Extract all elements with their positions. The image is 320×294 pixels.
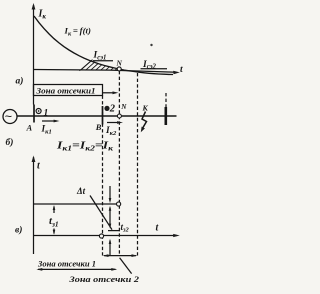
short dashed line above right electrode (x=166) <box>165 93 167 107</box>
wire: main circuit line <box>17 115 177 117</box>
svg-text:tз1: tз1 <box>49 215 59 228</box>
underline of label Ic32 <box>141 68 168 70</box>
box Zona otsechki 1 (middle band) <box>34 85 103 96</box>
svg-text:t: t <box>37 161 41 172</box>
svg-text:Δt: Δt <box>76 186 86 196</box>
x-axis of plot v <box>34 235 177 237</box>
svg-text:К: К <box>142 104 149 113</box>
node: y-axis of plot a (Ik axis) <box>33 5 35 105</box>
y-axis of plot v (t axis vertical) <box>33 157 35 254</box>
svg-text:Iк = f(t): Iк = f(t) <box>64 26 91 38</box>
leader line to zone 2 label <box>120 258 132 274</box>
level line t_e2 <box>108 230 120 232</box>
svg-text:~: ~ <box>5 109 12 123</box>
svg-text:в): в) <box>15 225 22 236</box>
svg-text:Зона отсечки1: Зона отсечки1 <box>35 86 95 95</box>
hatched triangle under curve left of N <box>80 60 117 71</box>
node N circle on circuit line <box>117 114 121 118</box>
lightning breakdown symbol at K <box>142 112 147 129</box>
double arrow zone 1 extent <box>38 268 116 270</box>
svg-text:Зона отсечки 1: Зона отсечки 1 <box>37 259 96 268</box>
double arrow between t_e1 and t_e2 levels <box>109 208 111 227</box>
node: t-axis of plot a <box>34 70 177 73</box>
svg-text:t: t <box>156 223 160 234</box>
svg-text:В: В <box>95 122 102 132</box>
svg-text:N: N <box>120 103 127 111</box>
node: y-axis arrowhead plot a <box>32 3 36 10</box>
marker filled dot 2 <box>104 106 109 111</box>
arrow Ik2 current <box>107 122 120 124</box>
svg-text:А: А <box>26 123 33 133</box>
underline of label Ic31 <box>93 60 113 62</box>
electrode thick tick right <box>165 107 168 125</box>
svg-text:N: N <box>116 59 123 68</box>
svg-text:Iк2: Iк2 <box>105 126 117 137</box>
AC source G <box>3 110 17 124</box>
curve Ik=f(t) exponential decay <box>34 16 173 75</box>
arrow from band box to N dashed line <box>103 92 116 94</box>
node N circle on curve (plot a) <box>117 67 121 71</box>
dashed line K (x=137.5) <box>137 73 139 256</box>
marker circle-dot 1 <box>36 109 41 114</box>
dashed line N (x=119.4) <box>118 71 120 256</box>
diagonal transition line <box>90 196 112 230</box>
svg-text:Iсэ2: Iсэ2 <box>142 60 157 71</box>
svg-text:Iсэ1: Iсэ1 <box>93 51 107 62</box>
svg-text:1: 1 <box>44 109 49 119</box>
node: t-axis arrowhead plot a <box>173 71 180 75</box>
node: open circle on t axis at B <box>99 234 103 238</box>
svg-text:2: 2 <box>109 103 116 114</box>
svg-text:Iк1=Iк2=Iк: Iк1=Iк2=Iк <box>56 141 114 153</box>
svg-text:а): а) <box>16 76 24 87</box>
up arrow from zone2 line to t axis <box>109 241 111 256</box>
svg-text:б): б) <box>6 137 14 148</box>
node A tick <box>33 105 35 123</box>
double arrow zone 2 extent (between B and K dashed) <box>104 255 136 257</box>
node: open circle end of t_e1 level <box>117 202 121 206</box>
dashed line B (x=102.5) <box>102 96 104 256</box>
dimension t_e1 upper arrow <box>53 207 55 214</box>
arrow Ik1 current <box>42 120 57 122</box>
svg-text:t: t <box>180 65 183 75</box>
scan speck <box>150 44 152 46</box>
svg-text:Iк1: Iк1 <box>41 125 52 136</box>
level line t_e1 <box>34 203 117 205</box>
svg-text:tз2: tз2 <box>121 222 130 234</box>
node B tick <box>102 106 104 125</box>
svg-text:Iк: Iк <box>38 9 47 21</box>
dimension t_e1 lower arrow <box>53 229 55 234</box>
svg-text:Зона отсечки 2: Зона отсечки 2 <box>68 274 140 284</box>
leader arrow from dt label down to t_e1 line <box>109 186 111 201</box>
